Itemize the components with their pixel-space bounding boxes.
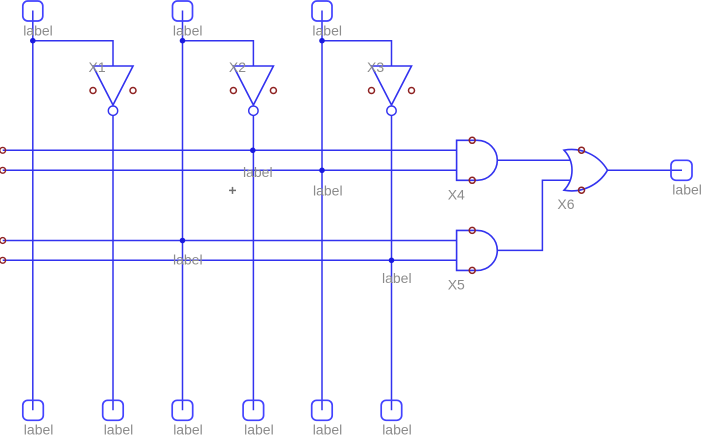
wire: input b vertical: [182, 11, 184, 411]
wire: net D horizontal to X5 bottom input: [3, 259, 457, 261]
bottom terminal 4 box: [243, 400, 264, 420]
bottom terminal 1 box: [23, 400, 44, 420]
svg-text:label: label: [312, 22, 342, 38]
wire: net C horizontal to X5 top input: [3, 240, 457, 242]
wire: X5 output routed to X6 bottom input: [497, 180, 570, 250]
svg-text:X5: X5: [448, 276, 465, 292]
pin: net A unconnected input pin: [0, 147, 6, 153]
svg-text:label: label: [244, 421, 274, 437]
wire: X6 output to output terminal: [608, 169, 683, 171]
inverter X1 bubble: [108, 106, 117, 115]
svg-text:X4: X4: [448, 186, 465, 202]
wire: branch b to inverter X2 input: [183, 41, 254, 66]
bottom terminal 3 box: [172, 400, 193, 420]
svg-text:label: label: [23, 22, 53, 38]
input terminal 1 box: [23, 1, 43, 21]
bottom terminal 5 box: [312, 400, 333, 420]
junction: input b branch: [180, 38, 186, 44]
wire: input a vertical (terminal to bottom terminal): [32, 11, 34, 411]
wire: net A horizontal to X4 top input: [3, 149, 457, 151]
svg-text:label: label: [313, 421, 343, 437]
pin: net C unconnected input pin: [0, 238, 6, 244]
and-gate X4 top pin: [469, 137, 475, 143]
junction: input b on net C: [180, 238, 186, 244]
inverter X3 right pin: [409, 88, 415, 94]
wire: X4 output to X6 top input: [497, 159, 570, 161]
inverter X2 body: [233, 66, 273, 105]
inverter X1 body: [93, 66, 133, 105]
junction: input a branch: [30, 38, 36, 44]
svg-text:label: label: [382, 421, 412, 437]
svg-text:label: label: [24, 421, 54, 437]
svg-text:label: label: [104, 421, 134, 437]
pin: net D unconnected input pin: [0, 257, 6, 263]
svg-text:X1: X1: [89, 59, 106, 75]
svg-text:X3: X3: [367, 59, 384, 75]
inverter X1 left pin: [90, 88, 96, 94]
inverter X1 right pin: [130, 88, 136, 94]
inverter X3 left pin: [369, 88, 375, 94]
junction: input c on net B: [319, 168, 325, 174]
junction: input c branch: [319, 38, 325, 44]
inverter X3 body: [372, 66, 412, 105]
and-gate X5 bottom pin: [469, 267, 475, 273]
wire: branch a to inverter X1 input: [33, 41, 113, 66]
wire: X1 output vertical to bottom terminal: [112, 116, 114, 411]
svg-text:X2: X2: [229, 59, 246, 75]
wire: X2 output vertical to bottom terminal: [252, 116, 254, 411]
and-gate X4 body: [457, 140, 498, 180]
pin: net B unconnected input pin: [0, 167, 6, 173]
and-gate X5 body: [457, 230, 498, 270]
inverter X2 bubble: [249, 106, 258, 115]
svg-text:label: label: [243, 164, 273, 180]
and-gate X4 bottom pin: [469, 177, 475, 183]
svg-text:label: label: [313, 183, 343, 199]
svg-text:label: label: [672, 181, 702, 197]
input terminal 3 box: [312, 1, 332, 21]
junction: X2 output on net A: [250, 148, 256, 154]
inverter X3 bubble: [387, 106, 396, 115]
or-gate X6 bottom pin: [579, 187, 585, 193]
inverter X2 right pin: [270, 88, 276, 94]
or-gate X6 top pin: [579, 147, 585, 153]
plus marker: [229, 189, 236, 191]
wire: net B horizontal to X4 bottom input: [3, 169, 457, 171]
svg-text:label: label: [382, 270, 412, 286]
and-gate X5 top pin: [469, 227, 475, 233]
output terminal box: [671, 160, 692, 180]
junction: X3 output on net D: [389, 258, 395, 264]
svg-text:label: label: [173, 252, 203, 268]
inverter X2 left pin: [230, 88, 236, 94]
input terminal 2 box: [173, 1, 193, 21]
wire: X3 output vertical to bottom terminal: [391, 116, 393, 411]
svg-text:label: label: [173, 22, 203, 38]
or-gate X6 body: [564, 150, 608, 191]
svg-text:X6: X6: [557, 196, 574, 212]
svg-text:label: label: [173, 421, 203, 437]
bottom terminal 6 box: [381, 400, 402, 420]
bottom terminal 2 box: [103, 400, 124, 420]
wire: input c vertical: [321, 11, 323, 411]
wire: branch c to inverter X3 input: [322, 41, 392, 66]
